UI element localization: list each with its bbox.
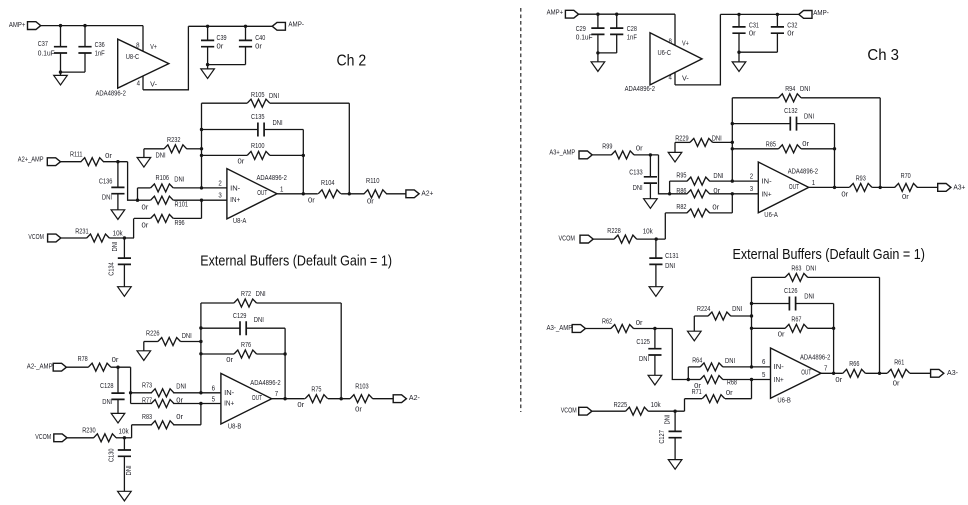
- wire pin3: [732, 193, 758, 195]
- svg-text:R93: R93: [856, 175, 866, 182]
- capacitor C132 DNI feedback: [732, 123, 790, 125]
- svg-text:0r: 0r: [112, 357, 120, 364]
- svg-text:R71: R71: [692, 389, 702, 396]
- wire R72 return: [340, 303, 342, 399]
- resistor R62 0r: [585, 328, 611, 330]
- svg-text:DNI: DNI: [126, 465, 133, 475]
- svg-text:1: 1: [280, 186, 283, 193]
- svg-text:U6-C: U6-C: [658, 50, 672, 57]
- resistor R64 DNI: [687, 367, 689, 380]
- svg-text:8: 8: [136, 42, 139, 49]
- capacitor C134 DNI: [123, 238, 125, 258]
- svg-text:6: 6: [212, 385, 215, 392]
- svg-text:C132: C132: [784, 108, 798, 115]
- svg-text:R94: R94: [785, 86, 795, 93]
- svg-text:0r: 0r: [778, 332, 786, 339]
- resistor R93 0r: [849, 183, 872, 191]
- resistor R100 0r feedback: [202, 154, 248, 156]
- svg-text:V+: V+: [682, 41, 689, 48]
- svg-text:DNI: DNI: [633, 185, 643, 192]
- svg-text:DNI: DNI: [732, 306, 742, 313]
- svg-text:DNI: DNI: [804, 114, 814, 121]
- svg-text:Ch 3: Ch 3: [867, 47, 899, 64]
- svg-text:C40: C40: [255, 35, 265, 42]
- svg-text:10k: 10k: [643, 228, 654, 235]
- svg-text:VCOM: VCOM: [35, 434, 51, 441]
- svg-text:0r: 0r: [713, 188, 721, 195]
- svg-text:C28: C28: [627, 26, 637, 33]
- svg-text:C129: C129: [233, 313, 247, 320]
- svg-text:0r: 0r: [841, 192, 849, 199]
- wire V- to AMP- rail: [675, 14, 720, 85]
- svg-text:10k: 10k: [119, 429, 130, 436]
- resistor R99 0r: [592, 154, 611, 156]
- ground: [738, 52, 740, 62]
- svg-text:A2-_AMP: A2-_AMP: [27, 364, 53, 371]
- svg-text:OUT: OUT: [257, 190, 268, 197]
- op-amp U6-C: [650, 33, 702, 85]
- capacitor C135 DNI feedback: [202, 129, 258, 131]
- resistor R94 DNI feedback: [732, 97, 778, 99]
- wire inverting bus: [731, 98, 733, 181]
- svg-text:R62: R62: [602, 319, 612, 326]
- ground: [60, 72, 62, 75]
- capacitor C127 DNI: [674, 411, 676, 431]
- resistor R86 0r: [670, 193, 688, 195]
- pin 4 V-: [674, 72, 676, 85]
- svg-text:IN-: IN-: [762, 179, 773, 186]
- svg-text:Ch 2: Ch 2: [337, 53, 367, 70]
- resistor R230 10k: [67, 437, 94, 439]
- channel separator dashed line: [520, 8, 522, 412]
- svg-text:0r: 0r: [105, 153, 113, 160]
- svg-text:0r: 0r: [726, 390, 734, 397]
- svg-text:0.1uF: 0.1uF: [576, 34, 593, 41]
- svg-text:OUT: OUT: [801, 370, 812, 377]
- svg-text:R61: R61: [894, 359, 904, 366]
- capacitor C28 1nF: [616, 14, 618, 28]
- svg-text:R101: R101: [175, 201, 189, 208]
- svg-text:C127: C127: [659, 430, 666, 444]
- resistor R83 0r: [200, 404, 202, 425]
- svg-text:AMP+: AMP+: [9, 22, 26, 29]
- svg-text:A2-: A2-: [409, 395, 421, 402]
- svg-text:C131: C131: [665, 253, 679, 260]
- svg-text:0r: 0r: [636, 145, 644, 152]
- svg-text:8: 8: [669, 39, 672, 46]
- svg-text:DNI: DNI: [665, 414, 672, 424]
- svg-text:5: 5: [762, 372, 765, 379]
- svg-text:DNI: DNI: [273, 120, 283, 127]
- wire cap join: [61, 71, 86, 73]
- svg-text:OUT: OUT: [252, 395, 263, 402]
- wire input to IN+ node: [128, 162, 138, 201]
- svg-text:R106: R106: [156, 175, 170, 182]
- svg-text:0r: 0r: [226, 357, 234, 364]
- svg-text:R75: R75: [311, 386, 321, 393]
- wire output: [809, 186, 850, 188]
- wire pin5: [752, 379, 771, 381]
- svg-text:DNI: DNI: [665, 263, 675, 270]
- capacitor C128 DNI: [117, 367, 119, 393]
- pin 8 V+: [674, 14, 676, 45]
- svg-text:R70: R70: [901, 173, 911, 180]
- wire AMP- rail: [188, 25, 272, 27]
- svg-text:DNI: DNI: [725, 358, 735, 365]
- svg-text:R225: R225: [614, 402, 628, 409]
- svg-text:DNI: DNI: [800, 86, 810, 93]
- wire inverting bus: [751, 277, 753, 367]
- svg-text:0r: 0r: [367, 199, 375, 206]
- resistor R225 10k: [592, 410, 626, 412]
- capacitor C129 DNI feedback: [201, 327, 240, 329]
- resistor R231 10k: [61, 237, 87, 239]
- svg-text:C134: C134: [109, 262, 116, 276]
- capacitor C40 0r: [245, 26, 247, 40]
- wire inverting bus: [201, 103, 203, 188]
- resistor R101 0r: [138, 199, 151, 201]
- svg-text:A3-_AMP: A3-_AMP: [547, 325, 573, 332]
- svg-text:C125: C125: [636, 339, 650, 346]
- resistor R82 0r: [731, 194, 733, 213]
- svg-text:IN+: IN+: [774, 377, 784, 384]
- wire C135 return: [302, 130, 304, 194]
- wire input to IN+ node: [659, 155, 670, 194]
- wire C132 return: [834, 124, 836, 188]
- wire cap join: [739, 51, 777, 53]
- node AMP- (Ch2): [272, 22, 285, 30]
- svg-text:0r: 0r: [712, 205, 720, 212]
- svg-text:VCOM: VCOM: [561, 408, 577, 415]
- svg-text:R66: R66: [849, 361, 859, 368]
- wire AMP- rail: [720, 13, 798, 15]
- wire cap join: [598, 52, 617, 54]
- resistor R95 DNI: [669, 181, 671, 194]
- svg-text:3: 3: [750, 186, 753, 193]
- resistor R228 10k: [593, 238, 614, 240]
- wire pin6: [752, 366, 771, 368]
- svg-text:0.1uF: 0.1uF: [38, 51, 55, 58]
- svg-text:External Buffers (Default Gain: External Buffers (Default Gain = 1): [200, 254, 392, 270]
- svg-text:6: 6: [762, 359, 765, 366]
- svg-text:4: 4: [137, 81, 140, 88]
- svg-text:C126: C126: [784, 288, 798, 295]
- ground: [649, 183, 651, 199]
- svg-text:0r: 0r: [893, 381, 901, 388]
- svg-text:R76: R76: [241, 342, 251, 349]
- capacitor C136 DNI: [117, 162, 119, 188]
- svg-text:0r: 0r: [176, 414, 184, 421]
- wire R94 return: [879, 98, 881, 188]
- svg-text:DNI: DNI: [713, 173, 723, 180]
- svg-text:DNI: DNI: [712, 136, 722, 143]
- svg-text:AMP-: AMP-: [813, 10, 829, 17]
- ground: [597, 53, 599, 62]
- svg-text:C39: C39: [217, 35, 227, 42]
- ground: [117, 194, 119, 210]
- svg-text:A2+_AMP: A2+_AMP: [18, 157, 44, 164]
- op-amp U8-C: [118, 39, 169, 88]
- svg-text:0r: 0r: [217, 44, 225, 51]
- svg-text:DNI: DNI: [804, 294, 814, 301]
- pin 8 V+: [142, 26, 144, 52]
- resistor R77 0r: [131, 403, 152, 405]
- svg-text:C32: C32: [787, 22, 797, 29]
- capacitor C37 0.1uF: [60, 26, 62, 47]
- capacitor C130 DNI: [123, 438, 125, 450]
- svg-text:1: 1: [812, 180, 815, 187]
- svg-text:V-: V-: [682, 75, 689, 82]
- svg-text:R68: R68: [727, 380, 737, 387]
- wire AMP+ rail: [41, 25, 143, 27]
- ground: [123, 456, 125, 491]
- ground: [693, 316, 695, 331]
- wire pin2: [202, 187, 227, 189]
- svg-text:AMP+: AMP+: [547, 10, 564, 17]
- svg-text:V-: V-: [150, 82, 157, 89]
- svg-text:R77: R77: [142, 398, 152, 405]
- resistor R70 0r: [895, 183, 918, 191]
- wire pin5: [201, 403, 221, 405]
- svg-text:R226: R226: [146, 330, 160, 337]
- svg-text:0r: 0r: [142, 223, 150, 230]
- svg-text:C133: C133: [629, 170, 643, 177]
- resistor R72 DNI feedback: [201, 302, 234, 304]
- svg-text:IN+: IN+: [762, 191, 772, 198]
- svg-text:A2+: A2+: [421, 191, 433, 198]
- svg-text:DNI: DNI: [269, 93, 279, 100]
- resistor R232 DNI: [144, 148, 164, 150]
- svg-text:2: 2: [750, 174, 753, 181]
- svg-text:0r: 0r: [636, 320, 644, 327]
- capacitor C29 0.1uF: [597, 14, 599, 28]
- svg-text:DNI: DNI: [112, 241, 119, 251]
- resistor R111 0r: [61, 161, 82, 163]
- resistor R73 DNI: [131, 392, 152, 394]
- svg-text:C128: C128: [100, 383, 114, 390]
- wire R63 return: [879, 277, 881, 373]
- svg-text:DNI: DNI: [182, 333, 192, 340]
- svg-text:0r: 0r: [308, 198, 316, 205]
- svg-text:R72: R72: [241, 291, 251, 298]
- capacitor C32 0r: [776, 14, 778, 27]
- resistor R78 0r: [66, 366, 88, 368]
- svg-text:DNI: DNI: [156, 152, 166, 159]
- svg-text:0r: 0r: [835, 377, 843, 384]
- svg-text:External Buffers (Default Gain: External Buffers (Default Gain = 1): [733, 247, 925, 263]
- svg-text:U8-B: U8-B: [228, 424, 242, 431]
- svg-text:4: 4: [669, 74, 672, 81]
- wire output: [277, 193, 318, 195]
- svg-text:R231: R231: [75, 229, 89, 236]
- ground: [117, 399, 119, 413]
- wire AMP+ rail: [579, 13, 675, 15]
- capacitor C131 DNI: [655, 239, 657, 258]
- wire input to pins: [672, 329, 688, 380]
- capacitor C133 DNI: [649, 155, 651, 177]
- svg-text:R230: R230: [82, 427, 96, 434]
- svg-text:DNI: DNI: [256, 291, 266, 298]
- svg-text:10k: 10k: [113, 230, 124, 237]
- node A2-: [393, 395, 406, 403]
- wire V- to AMP- rail: [143, 26, 188, 90]
- wire C129 return: [284, 328, 286, 399]
- svg-text:IN+: IN+: [224, 401, 234, 408]
- svg-text:VCOM: VCOM: [559, 236, 576, 243]
- resistor R226 DNI: [144, 341, 158, 343]
- wire pin6: [201, 392, 221, 394]
- svg-text:U8-C: U8-C: [126, 54, 140, 61]
- svg-text:R105: R105: [251, 92, 265, 99]
- svg-text:R86: R86: [676, 188, 686, 195]
- svg-text:A3+: A3+: [953, 184, 965, 191]
- ground: [207, 65, 209, 69]
- svg-text:R95: R95: [676, 173, 686, 180]
- svg-text:10k: 10k: [651, 402, 662, 409]
- svg-text:U6-B: U6-B: [777, 397, 791, 404]
- svg-text:DNI: DNI: [639, 356, 649, 363]
- capacitor C31 0r: [738, 14, 740, 27]
- capacitor C36 1nF: [84, 26, 86, 47]
- ground: [674, 438, 676, 460]
- resistor R96 0r: [201, 200, 203, 218]
- svg-text:C136: C136: [99, 179, 113, 186]
- svg-text:0r: 0r: [787, 31, 795, 38]
- ground: [143, 342, 145, 351]
- svg-text:R85: R85: [766, 141, 776, 148]
- svg-text:DNI: DNI: [102, 399, 112, 406]
- svg-text:0r: 0r: [297, 402, 305, 409]
- svg-text:R63: R63: [791, 266, 801, 273]
- resistor R103 0r: [350, 395, 373, 403]
- svg-text:C31: C31: [749, 22, 759, 29]
- svg-text:R232: R232: [167, 137, 181, 144]
- svg-text:U6-A: U6-A: [764, 212, 778, 219]
- wire input to pins: [130, 367, 132, 403]
- svg-text:0r: 0r: [749, 31, 757, 38]
- svg-text:A3+_AMP: A3+_AMP: [549, 150, 575, 157]
- svg-text:R103: R103: [355, 384, 369, 391]
- svg-text:C130: C130: [109, 448, 116, 462]
- resistor R76 0r feedback: [201, 353, 234, 355]
- resistor R61 0r: [887, 369, 910, 377]
- capacitor C39 0r: [207, 26, 209, 40]
- svg-text:IN-: IN-: [224, 390, 235, 397]
- resistor R104 0r: [318, 190, 341, 198]
- resistor R63 DNI feedback: [752, 276, 786, 278]
- capacitor C126 DNI feedback: [752, 303, 790, 305]
- svg-text:ADA4896-2: ADA4896-2: [96, 91, 126, 98]
- wire R105 return: [348, 103, 350, 194]
- svg-text:0r: 0r: [902, 194, 910, 201]
- svg-text:R83: R83: [142, 414, 152, 421]
- svg-text:AMP-: AMP-: [288, 22, 304, 29]
- svg-text:DNI: DNI: [806, 266, 816, 273]
- svg-text:R73: R73: [142, 382, 152, 389]
- resistor R85 0r feedback: [732, 148, 778, 150]
- svg-text:R229: R229: [675, 136, 689, 143]
- capacitor C125 DNI: [654, 329, 656, 349]
- node A3+: [938, 184, 951, 192]
- resistor R66 0r: [843, 369, 866, 377]
- svg-text:R110: R110: [366, 178, 380, 185]
- resistor R110 0r: [364, 190, 387, 198]
- svg-text:1nF: 1nF: [95, 50, 105, 57]
- svg-text:VCOM: VCOM: [28, 234, 44, 241]
- svg-text:3: 3: [218, 192, 221, 199]
- wire C126 return: [833, 304, 835, 374]
- resistor R67 0r feedback: [752, 327, 786, 329]
- wire cap join: [208, 64, 246, 66]
- svg-text:0r: 0r: [238, 159, 246, 166]
- svg-text:0r: 0r: [255, 44, 263, 51]
- wire inverting bus: [200, 303, 202, 393]
- svg-text:DNI: DNI: [174, 177, 184, 184]
- svg-text:0r: 0r: [802, 141, 810, 148]
- op-amp U6-B ADA4896-2: [771, 348, 822, 398]
- svg-text:ADA4896-2: ADA4896-2: [257, 175, 287, 182]
- ground: [655, 264, 657, 286]
- svg-text:C37: C37: [38, 41, 48, 48]
- svg-text:ADA4896-2: ADA4896-2: [250, 380, 280, 387]
- wire output: [272, 398, 305, 400]
- svg-text:R82: R82: [676, 204, 686, 211]
- svg-text:C29: C29: [576, 26, 586, 33]
- op-amp U6-A ADA4896-2: [758, 162, 808, 213]
- ground: [674, 142, 676, 152]
- svg-text:R67: R67: [791, 317, 801, 324]
- svg-text:IN+: IN+: [230, 197, 240, 204]
- svg-text:ADA4896-2: ADA4896-2: [788, 168, 818, 175]
- svg-text:0r: 0r: [355, 406, 363, 413]
- resistor R68 0r: [688, 379, 700, 381]
- svg-text:R64: R64: [692, 358, 702, 365]
- wire pin2: [732, 180, 758, 182]
- svg-text:V+: V+: [150, 44, 157, 51]
- ground: [654, 355, 656, 375]
- svg-text:5: 5: [212, 396, 215, 403]
- resistor R224 DNI: [694, 315, 708, 317]
- svg-text:C135: C135: [251, 114, 265, 121]
- svg-text:0r: 0r: [142, 204, 150, 211]
- svg-text:U8-A: U8-A: [233, 218, 247, 225]
- svg-text:R224: R224: [697, 306, 711, 313]
- svg-text:R96: R96: [175, 220, 185, 227]
- svg-text:A3-: A3-: [947, 370, 959, 377]
- svg-text:C36: C36: [95, 42, 105, 49]
- svg-text:DNI: DNI: [254, 317, 264, 324]
- resistor R106 DNI: [137, 188, 139, 200]
- resistor R71 0r: [751, 380, 753, 399]
- svg-text:2: 2: [218, 180, 221, 187]
- op-amp U8-B ADA4896-2: [221, 373, 272, 424]
- node A3-: [931, 369, 944, 377]
- resistor R105 DNI feedback: [202, 102, 248, 104]
- svg-text:R228: R228: [607, 228, 621, 235]
- svg-text:1nF: 1nF: [627, 34, 637, 41]
- pin 4 V-: [142, 76, 144, 90]
- node A2+: [406, 190, 419, 198]
- node AMP- (Ch3): [799, 11, 812, 19]
- svg-text:7: 7: [275, 391, 278, 398]
- svg-text:R78: R78: [78, 356, 88, 363]
- svg-text:IN-: IN-: [230, 185, 241, 192]
- ground: [143, 149, 145, 158]
- svg-text:R111: R111: [70, 152, 83, 159]
- svg-text:0r: 0r: [176, 398, 184, 405]
- ground: [123, 264, 125, 286]
- svg-text:R100: R100: [251, 143, 265, 150]
